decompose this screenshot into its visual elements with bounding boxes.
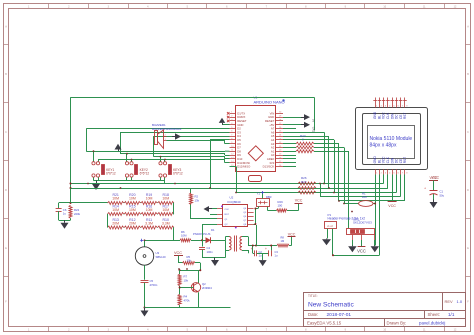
svg-text:6*6*12: 6*6*12 — [106, 172, 116, 176]
svg-text:1/1: 1/1 — [448, 312, 455, 317]
svg-text:20M: 20M — [112, 221, 119, 225]
svg-text:10k: 10k — [184, 278, 189, 282]
svg-text:REV: REV — [445, 299, 454, 304]
svg-text:SK12D07VG3: SK12D07VG3 — [353, 221, 372, 225]
svg-text:10M: 10M — [146, 197, 153, 201]
svg-text:D12/MISO: D12/MISO — [237, 165, 251, 169]
svg-text:1u: 1u — [63, 212, 67, 216]
svg-text:10M: 10M — [181, 234, 187, 238]
svg-text:EasyEDA V5.5.15: EasyEDA V5.5.15 — [307, 321, 342, 326]
svg-text:VCC: VCC — [429, 176, 437, 180]
svg-text:D1: D1 — [211, 228, 215, 232]
svg-text:3.3M: 3.3M — [162, 221, 170, 225]
svg-text:1.0: 1.0 — [457, 299, 463, 304]
svg-text:D13/SCK: D13/SCK — [263, 165, 275, 169]
svg-text:10M: 10M — [162, 208, 169, 212]
svg-text:10k: 10k — [187, 259, 192, 263]
svg-text:DB3: DB3 — [266, 195, 272, 199]
svg-text:10M: 10M — [162, 197, 169, 201]
svg-text:Y1: Y1 — [257, 192, 261, 196]
svg-text:50u: 50u — [440, 193, 445, 197]
svg-text:470k: 470k — [184, 298, 191, 302]
svg-text:6*6*12: 6*6*12 — [140, 172, 150, 176]
svg-text:Sheet:: Sheet: — [428, 312, 440, 317]
svg-text:6*6*12: 6*6*12 — [173, 172, 183, 176]
svg-text:220k: 220k — [74, 212, 81, 216]
svg-text:ARDUINO NANO: ARDUINO NANO — [254, 99, 285, 104]
svg-text:pavel.dubickij: pavel.dubickij — [419, 321, 445, 326]
svg-text:SBM-20: SBM-20 — [156, 255, 167, 259]
svg-text:4700n: 4700n — [150, 283, 158, 287]
svg-text:10M: 10M — [112, 208, 119, 212]
svg-text:2N3904: 2N3904 — [202, 286, 212, 290]
svg-text:5V: 5V — [311, 119, 315, 122]
svg-text:2018-07-01: 2018-07-01 — [327, 312, 352, 318]
svg-text:R27: R27 — [301, 180, 307, 184]
svg-text:10M: 10M — [112, 197, 119, 201]
svg-text:GND: GND — [311, 127, 315, 133]
svg-text:C: C — [5, 131, 7, 134]
svg-text:100n: 100n — [207, 250, 214, 254]
svg-text:PN4007PLUS: PN4007PLUS — [193, 232, 211, 236]
svg-text:x1 x2: x1 x2 — [327, 225, 333, 228]
svg-text:Date:: Date: — [308, 312, 318, 317]
svg-text:Nokia 5110 Module: Nokia 5110 Module — [370, 136, 413, 142]
svg-text:D: D — [5, 189, 7, 192]
svg-text:100: 100 — [278, 204, 283, 208]
svg-text:10M: 10M — [146, 208, 153, 212]
svg-text:VCC: VCC — [357, 248, 366, 253]
svg-text:C2: C2 — [259, 250, 263, 254]
svg-text:20M: 20M — [129, 221, 136, 225]
svg-text:3.3M: 3.3M — [145, 221, 153, 225]
svg-text:RST: RST — [403, 157, 407, 163]
svg-text:+: + — [265, 247, 267, 251]
svg-text:FCQ8040: FCQ8040 — [228, 200, 241, 204]
svg-text:+: + — [251, 247, 253, 251]
svg-text:TITLE:: TITLE: — [308, 294, 318, 298]
svg-text:VCC: VCC — [288, 232, 296, 236]
svg-text:RST: RST — [225, 214, 230, 216]
svg-text:13k: 13k — [195, 199, 200, 203]
svg-text:VCC: VCC — [295, 199, 303, 203]
svg-text:RST: RST — [403, 113, 407, 119]
svg-text:VCC: VCC — [388, 204, 396, 208]
svg-text:1M: 1M — [281, 239, 285, 243]
svg-text:10M: 10M — [129, 208, 136, 212]
svg-text:100: 100 — [362, 195, 367, 199]
svg-text:Drawn By:: Drawn By: — [387, 321, 407, 326]
svg-text:CLK: CLK — [225, 209, 230, 211]
svg-text:84px x 48px: 84px x 48px — [370, 143, 397, 149]
svg-text:C: C — [467, 131, 469, 134]
svg-text:+: + — [424, 187, 426, 191]
svg-text:C3: C3 — [275, 250, 279, 254]
svg-text:10M: 10M — [129, 197, 136, 201]
svg-text:U2: U2 — [230, 196, 234, 200]
svg-text:D: D — [467, 189, 469, 192]
svg-text:VCC: VCC — [174, 251, 182, 255]
svg-text:New Schematic: New Schematic — [308, 301, 355, 308]
